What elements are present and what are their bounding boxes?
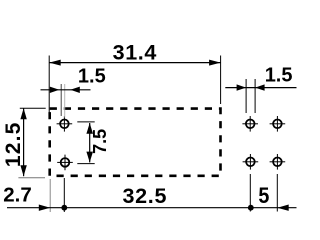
svg-text:1.5: 1.5 <box>78 66 106 88</box>
svg-text:32.5: 32.5 <box>122 184 167 208</box>
svg-text:2.7: 2.7 <box>3 184 32 207</box>
svg-text:1.5: 1.5 <box>265 64 293 86</box>
svg-text:5: 5 <box>258 183 269 208</box>
svg-text:12.5: 12.5 <box>2 121 25 167</box>
svg-text:31.4: 31.4 <box>113 40 157 64</box>
svg-text:7.5: 7.5 <box>90 129 110 154</box>
